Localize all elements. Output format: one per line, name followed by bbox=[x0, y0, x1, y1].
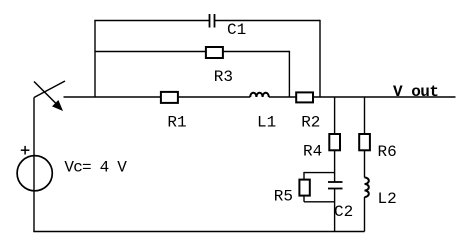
label R3 bbox=[214, 68, 233, 86]
label R6 bbox=[378, 143, 397, 161]
label L1 bbox=[257, 114, 276, 132]
wire parallel-branch left vertical bbox=[94, 21, 96, 98]
svg-text:L2: L2 bbox=[378, 190, 397, 208]
wire R3 branch horizontal bbox=[95, 51, 289, 53]
label C2 bbox=[334, 203, 353, 221]
resistor R3 bbox=[206, 47, 223, 58]
wire top C1 branch right segment bbox=[215, 20, 321, 22]
wire R4 C2 branch vertical upper bbox=[334, 97, 336, 182]
label R2 bbox=[301, 114, 320, 132]
resistor R1 bbox=[161, 92, 178, 103]
wire bottom return bbox=[33, 231, 364, 233]
resistor R2 bbox=[296, 92, 313, 102]
svg-text:R3: R3 bbox=[214, 68, 233, 86]
resistor R6 bbox=[359, 134, 370, 150]
svg-text:R4: R4 bbox=[303, 143, 322, 161]
resistor R4 bbox=[329, 134, 340, 150]
inductor L2 bbox=[365, 178, 369, 198]
voltage source Vc bbox=[17, 156, 52, 191]
label L2 bbox=[378, 190, 397, 208]
label C1 bbox=[227, 21, 246, 39]
wire R3 right vertical bbox=[288, 51, 290, 97]
label V out bbox=[393, 83, 439, 101]
wire R4 C2 branch vertical lower bbox=[334, 189, 336, 232]
capacitor C2 bbox=[328, 182, 343, 189]
svg-text:L1: L1 bbox=[257, 114, 276, 132]
svg-text:R1: R1 bbox=[167, 114, 186, 132]
inductor L1 bbox=[250, 93, 269, 97]
label Vc= 4 V bbox=[64, 158, 127, 176]
svg-text:R6: R6 bbox=[378, 143, 397, 161]
svg-text:C1: C1 bbox=[227, 21, 246, 39]
svg-text:R2: R2 bbox=[301, 114, 320, 132]
label R1 bbox=[167, 114, 186, 132]
label R5 bbox=[274, 188, 293, 206]
svg-text:V out: V out bbox=[393, 83, 439, 101]
resistor R5 bbox=[299, 180, 309, 196]
svg-text:R5: R5 bbox=[274, 188, 293, 206]
plus polarity mark bbox=[21, 146, 30, 155]
switch S1 bbox=[34, 81, 65, 111]
svg-text:C2: C2 bbox=[334, 203, 353, 221]
wire main horizontal node to V out bbox=[64, 96, 456, 98]
label R4 bbox=[303, 143, 322, 161]
wire top C1 branch left segment bbox=[94, 20, 209, 22]
svg-text:Vc= 4 V: Vc= 4 V bbox=[64, 158, 127, 176]
wire left vertical through source bbox=[33, 98, 35, 232]
capacitor C1 bbox=[210, 14, 215, 28]
wire R6 L2 branch vertical bbox=[364, 97, 366, 232]
wire R5 subloop bbox=[304, 172, 335, 202]
wire C1 right vertical bbox=[319, 20, 321, 97]
